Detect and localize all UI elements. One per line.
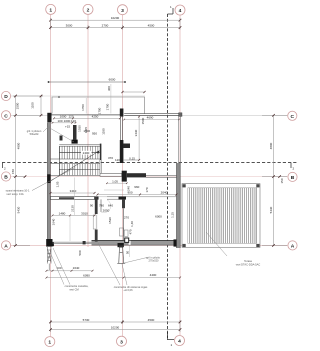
svg-text:50: 50 xyxy=(126,251,130,255)
grid3 wall glass middle xyxy=(119,117,121,140)
bottom dim 6090/4400 xyxy=(47,277,181,279)
svg-text:Terasa: Terasa xyxy=(244,259,252,263)
living room vertical dim 3430 xyxy=(138,117,140,161)
hall south wall thin part xyxy=(100,173,122,176)
svg-text:100: 100 xyxy=(57,119,62,123)
upper dim 6000 xyxy=(49,81,126,83)
grid line C horizontal xyxy=(11,114,288,116)
svg-text:4690: 4690 xyxy=(147,116,154,120)
svg-text:1530: 1530 xyxy=(108,217,112,224)
grid line B horizontal xyxy=(11,176,288,178)
svg-text:1,05: 1,05 xyxy=(112,179,118,183)
bottom dimension line 5730/4500 xyxy=(51,320,181,332)
svg-text:2400: 2400 xyxy=(83,151,90,155)
door opening in wall w/ leaf xyxy=(99,196,108,198)
hall south wall dark part xyxy=(127,173,146,177)
svg-text:4: 4 xyxy=(178,339,181,345)
svg-text:780: 780 xyxy=(99,204,104,208)
porch / bay outline xyxy=(52,97,145,114)
pilotis column xyxy=(117,246,125,264)
sliding door leaf dark xyxy=(59,197,74,199)
svg-text:3010: 3010 xyxy=(81,211,88,215)
dim line under right window xyxy=(124,119,179,121)
bottom left corner black xyxy=(46,239,52,247)
svg-text:1640: 1640 xyxy=(52,218,56,225)
grid line A horizontal xyxy=(11,244,289,246)
hall south wall window part xyxy=(146,174,176,176)
svg-text:2130: 2130 xyxy=(70,205,74,212)
grid line 2 vertical xyxy=(87,15,89,248)
svg-text:2040: 2040 xyxy=(161,191,168,195)
grid bubble 2 top xyxy=(83,4,93,14)
leader annotation constructie din stalpi xyxy=(98,243,120,285)
dim under hall wall xyxy=(107,182,127,184)
svg-text:4: 4 xyxy=(179,8,182,14)
wall thin double segment xyxy=(107,196,119,198)
svg-text:A: A xyxy=(291,243,295,249)
svg-text:1,05: 1,05 xyxy=(56,181,60,187)
svg-text:1000: 1000 xyxy=(64,119,71,123)
svg-text:2700: 2700 xyxy=(102,23,109,27)
svg-text:B: B xyxy=(4,175,8,181)
stair left boundary xyxy=(58,146,60,175)
terrace inner frame xyxy=(188,188,257,244)
bottom dimension line 10200 xyxy=(51,329,181,331)
svg-text:270: 270 xyxy=(124,215,129,219)
svg-text:D: D xyxy=(4,94,8,100)
grid bubble 3 bottom xyxy=(117,336,127,346)
svg-text:4500: 4500 xyxy=(148,318,155,322)
svg-text:6090: 6090 xyxy=(83,274,90,278)
svg-text:2050: 2050 xyxy=(103,209,110,213)
wall end line xyxy=(123,159,139,161)
stair direction arrow xyxy=(49,151,99,182)
door gap in vertical wall xyxy=(94,214,98,230)
grid line 3 vertical xyxy=(122,15,124,337)
grid line 1 vertical xyxy=(50,15,52,337)
top right corner column xyxy=(179,113,182,117)
section line 2 horizontal dashed xyxy=(2,162,297,164)
right dimension chain xyxy=(262,115,287,245)
svg-text:1500: 1500 xyxy=(141,117,145,124)
svg-text:4800: 4800 xyxy=(269,142,273,149)
svg-text:A: A xyxy=(4,243,8,249)
svg-text:50ta/dd: 50ta/dd xyxy=(30,132,39,136)
svg-text:B: B xyxy=(291,175,295,181)
svg-text:90: 90 xyxy=(90,204,94,208)
svg-text:640: 640 xyxy=(108,204,113,208)
svg-text:120: 120 xyxy=(68,114,73,118)
stair upper mid rail xyxy=(59,152,100,154)
bottom wall small stub xyxy=(125,238,129,242)
grid line D horizontal xyxy=(11,95,145,97)
grid bubble B left xyxy=(1,172,10,181)
interior thin wall vertical xyxy=(123,208,125,240)
section line 1 vertical dashed xyxy=(167,14,169,338)
grid3 wall stub right xyxy=(123,144,130,149)
terrace frame xyxy=(182,184,260,248)
bottom wall mid post xyxy=(83,241,86,244)
grid bubble D left xyxy=(1,91,10,100)
section marker 2 right xyxy=(290,163,292,168)
svg-text:1700: 1700 xyxy=(81,104,85,111)
grid bubble B right xyxy=(288,172,297,181)
svg-text:5430: 5430 xyxy=(269,206,273,213)
svg-text:900: 900 xyxy=(127,191,132,195)
top dimension line 10200 xyxy=(51,19,181,21)
svg-text:1480: 1480 xyxy=(59,211,66,215)
svg-text:960: 960 xyxy=(134,185,139,189)
interior wall stub at grid3 xyxy=(122,200,125,209)
section marker 2 left xyxy=(2,163,4,168)
interior wall vertical mid xyxy=(95,197,98,242)
svg-text:1000: 1000 xyxy=(60,114,67,118)
svg-text:950: 950 xyxy=(92,132,97,136)
svg-text:1700: 1700 xyxy=(106,103,110,110)
grid line 4 vertical xyxy=(179,15,181,335)
svg-text:4800: 4800 xyxy=(17,142,21,149)
bottom right corner black xyxy=(174,239,181,246)
svg-text:1600: 1600 xyxy=(83,129,90,133)
svg-text:vezi temp. 13A: vezi temp. 13A xyxy=(6,192,23,196)
grid bubble 3 top xyxy=(118,5,128,15)
stair lower mid rail xyxy=(59,169,100,171)
stair lower flight treads xyxy=(60,164,98,176)
interior wall horizontal thin right part xyxy=(126,196,176,198)
right wall window upper xyxy=(178,117,180,164)
exterior mini stair bottom-left xyxy=(48,247,52,270)
interior dim 120/4250 line xyxy=(54,117,120,119)
svg-text:4400: 4400 xyxy=(150,273,157,277)
stair upper flight rails xyxy=(51,145,101,159)
grid bubble C left xyxy=(1,111,10,120)
section marker 1 bottom xyxy=(168,332,175,340)
grid bubble 1 bottom xyxy=(45,337,55,347)
svg-text:1500: 1500 xyxy=(16,102,20,109)
grid bubble A right xyxy=(288,241,297,250)
svg-text:6000: 6000 xyxy=(155,215,162,219)
top wall window lines right xyxy=(124,114,181,116)
svg-text:scara interioara 10-1: scara interioara 10-1 xyxy=(6,188,30,192)
grid3 wall upper black xyxy=(120,109,124,117)
svg-text:3000: 3000 xyxy=(66,23,73,27)
grid bubble 4 top xyxy=(175,5,185,15)
grid bubble C right xyxy=(288,111,297,120)
svg-text:+H 0,06: +H 0,06 xyxy=(123,288,133,292)
svg-text:3430: 3430 xyxy=(134,129,138,136)
svg-text:1700: 1700 xyxy=(97,107,101,114)
left dimension chain xyxy=(13,96,43,245)
svg-text:3410: 3410 xyxy=(70,189,77,193)
leader annotation constructie metalica xyxy=(50,252,64,285)
svg-text:1: 1 xyxy=(48,340,51,346)
stair upper flight treads xyxy=(60,146,98,159)
top wall band: left corner black xyxy=(47,113,51,123)
bottom wall window left xyxy=(53,242,92,244)
svg-text:C: C xyxy=(291,114,295,120)
interior dim 3410 xyxy=(51,192,95,194)
top dimension line 3000/2700/4500 xyxy=(51,18,181,30)
svg-text:1,40: 1,40 xyxy=(130,221,134,227)
svg-text:0,15: 0,15 xyxy=(129,156,135,160)
grid bubble 1 top xyxy=(46,4,56,14)
svg-text:150: 150 xyxy=(280,178,284,183)
grid bubble 4 bottom xyxy=(175,336,185,346)
svg-text:1: 1 xyxy=(49,8,52,14)
terrace corner posts xyxy=(183,184,186,187)
leader annotation gril ti piloten xyxy=(43,127,74,142)
terrace decking hatch xyxy=(190,188,257,243)
left exterior wall xyxy=(47,123,50,240)
leader annotation terasa xyxy=(206,232,227,256)
svg-text:1640: 1640 xyxy=(73,266,80,270)
stair lower flight rails xyxy=(51,164,101,176)
interior dim 900/2140 xyxy=(98,194,177,196)
grid3 junction block xyxy=(122,171,127,182)
svg-text:vezi DTAC-DDA-5AC: vezi DTAC-DDA-5AC xyxy=(236,263,261,267)
upper dim short at bay xyxy=(123,91,145,93)
section marker 1 top xyxy=(168,8,174,14)
svg-text:300: 300 xyxy=(107,86,111,91)
grid bubble A left xyxy=(1,241,10,250)
svg-text:150: 150 xyxy=(11,169,15,174)
svg-text:120: 120 xyxy=(115,158,120,162)
svg-text:6000: 6000 xyxy=(109,78,116,82)
svg-text:170: 170 xyxy=(145,187,149,192)
grid3 wall lower black xyxy=(120,140,124,163)
top wall window lines left xyxy=(52,114,121,116)
svg-text:+15: +15 xyxy=(65,125,70,129)
interior wall horizontal mid xyxy=(51,197,95,200)
svg-text:1100: 1100 xyxy=(31,102,35,109)
svg-text:C: C xyxy=(4,113,8,119)
chimney block xyxy=(72,140,78,144)
svg-text:vezi CM: vezi CM xyxy=(69,288,78,292)
svg-text:470: 470 xyxy=(129,229,133,234)
svg-text:5730: 5730 xyxy=(83,318,90,322)
svg-text:10200: 10200 xyxy=(111,325,120,329)
stair west stub wall xyxy=(73,125,77,140)
svg-text:1180: 1180 xyxy=(102,128,106,135)
svg-text:270x020: 270x020 xyxy=(149,259,160,263)
wall dark segment at grid3 xyxy=(119,196,127,199)
svg-text:3: 3 xyxy=(121,8,124,14)
svg-text:120: 120 xyxy=(71,119,76,123)
svg-text:10200: 10200 xyxy=(111,16,120,20)
bottom wall dark band xyxy=(92,240,177,245)
left wall dark segment xyxy=(47,174,50,183)
leader annotation scara interioara xyxy=(32,168,75,191)
right wall lower dark xyxy=(176,163,180,248)
svg-text:1030: 1030 xyxy=(78,125,82,132)
svg-text:2: 2 xyxy=(87,8,90,14)
leader annotation gril in pilotis xyxy=(124,258,147,264)
svg-text:1,15: 1,15 xyxy=(170,212,174,218)
svg-text:370: 370 xyxy=(108,156,113,160)
stairwell east wall xyxy=(100,144,102,160)
svg-text:500: 500 xyxy=(78,250,82,255)
svg-text:4500: 4500 xyxy=(148,23,155,27)
bottom dim 100/1640 xyxy=(47,270,93,272)
svg-text:5430: 5430 xyxy=(17,206,21,213)
svg-text:3: 3 xyxy=(120,339,123,345)
wall seg black at junction xyxy=(95,196,99,199)
